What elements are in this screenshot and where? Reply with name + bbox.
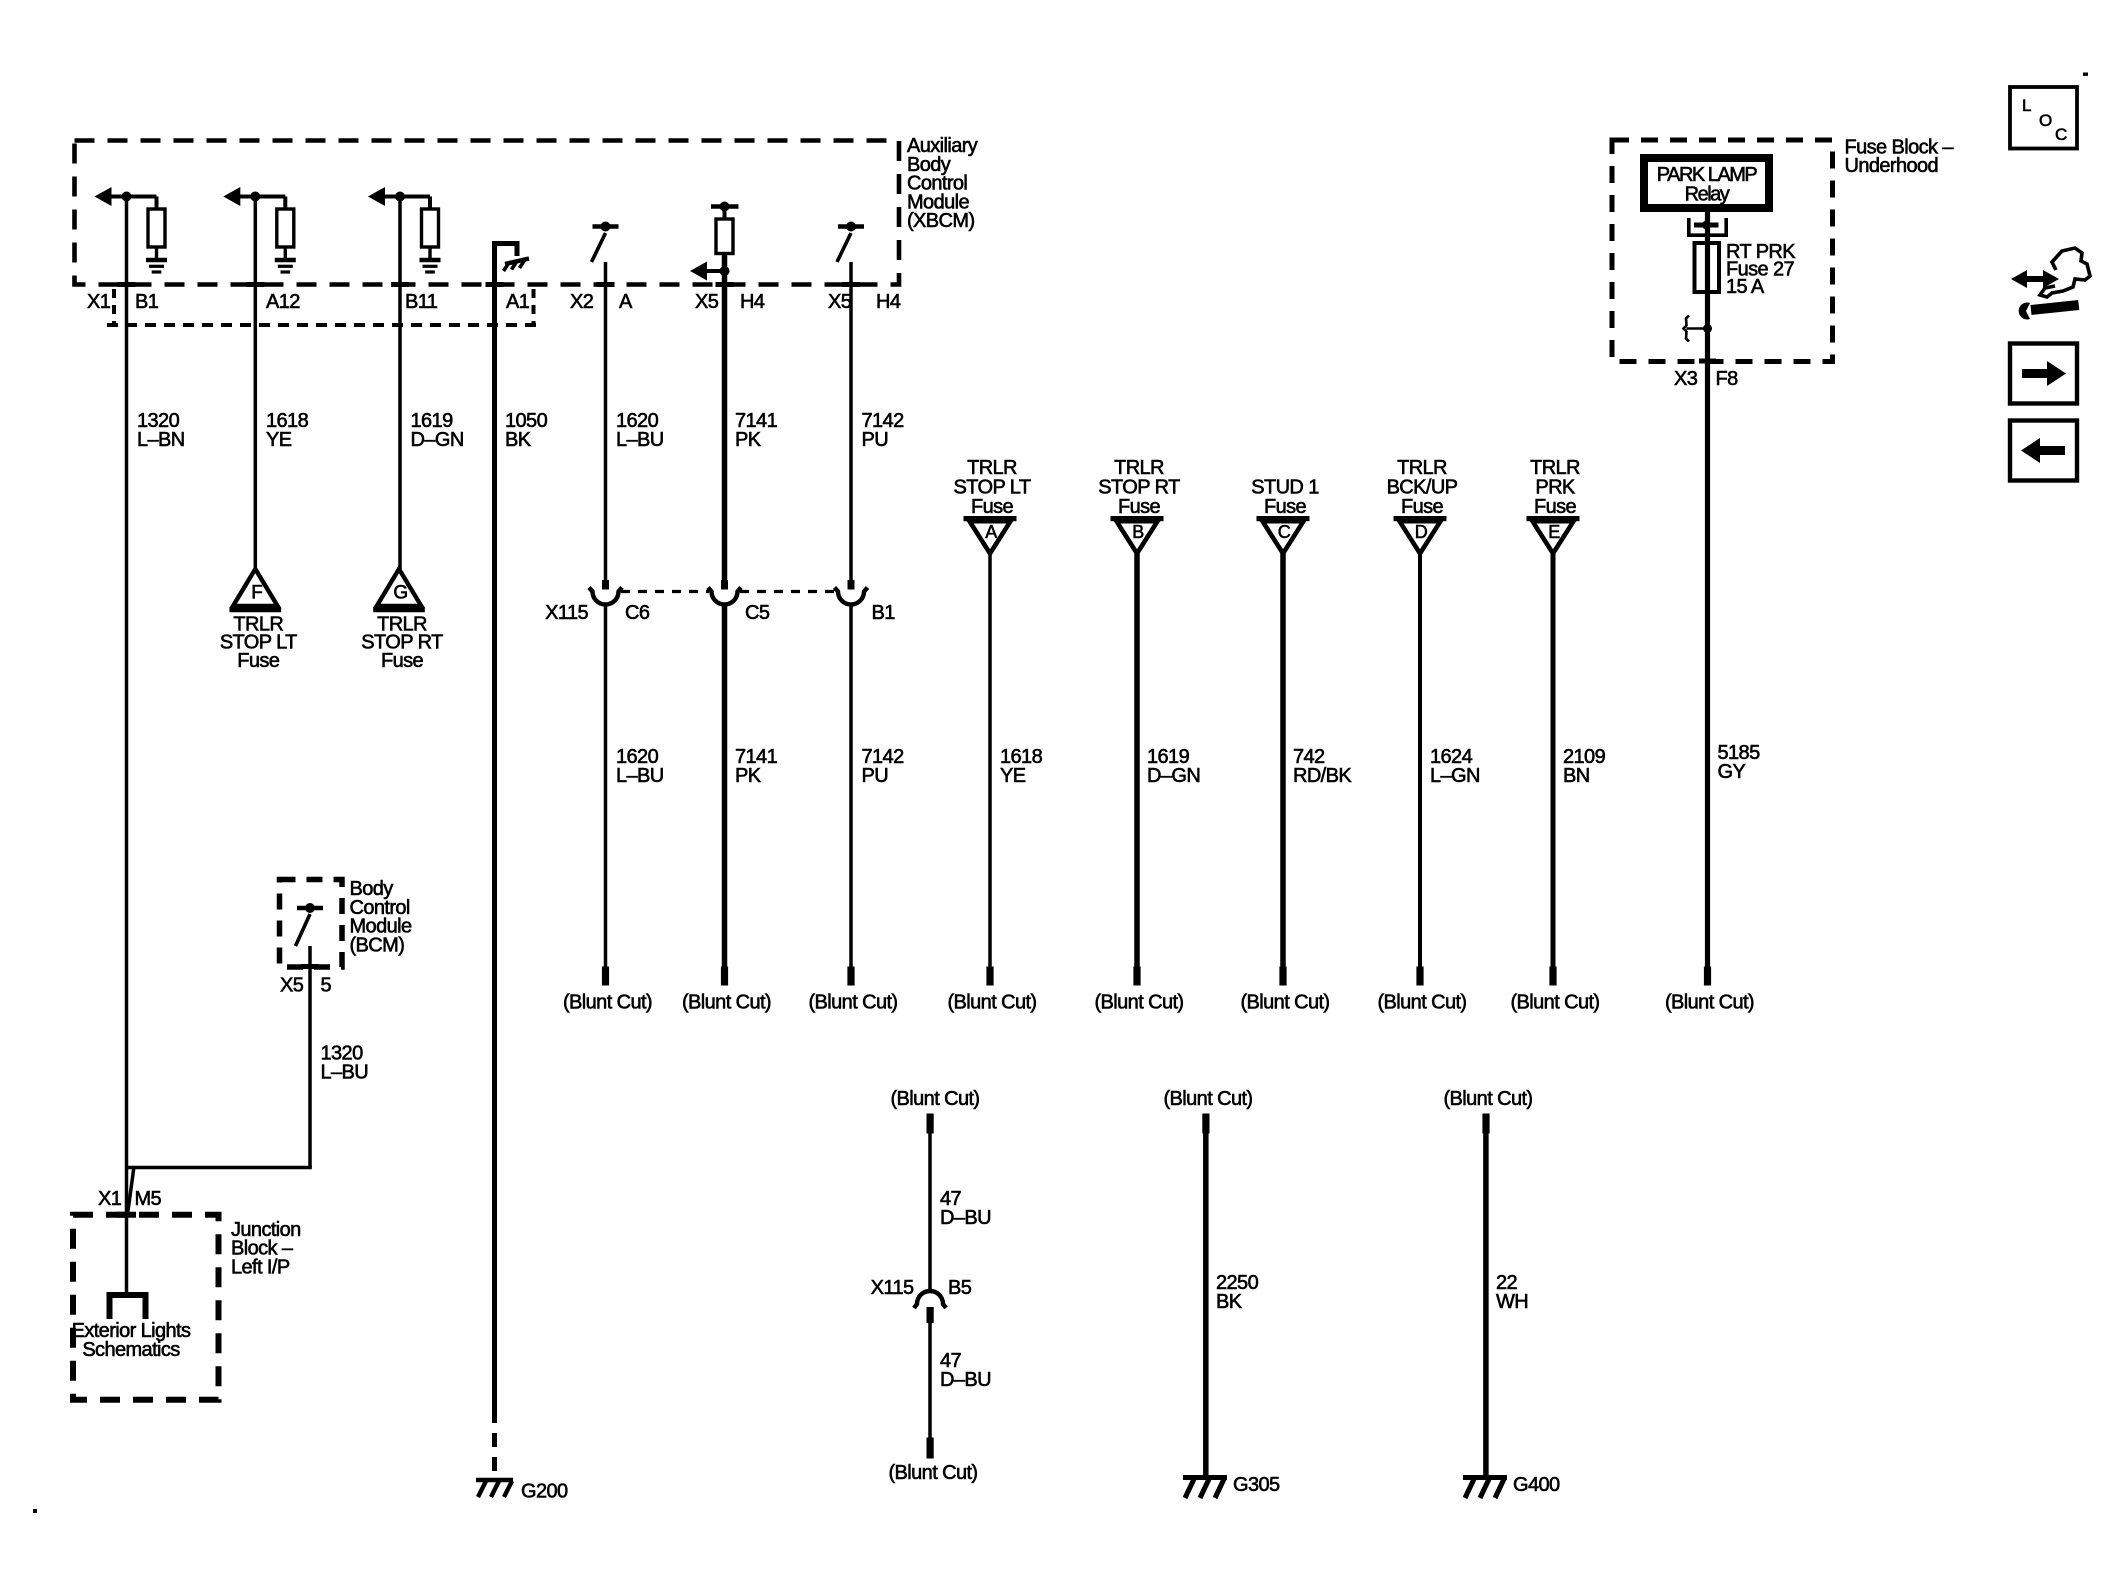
label 1619 D-GN [411,410,464,451]
label 7141 PK (lower) [735,746,778,787]
svg-text:Fuse: Fuse [971,496,1014,518]
svg-text:YE: YE [266,429,292,451]
svg-text:(Blunt Cut): (Blunt Cut) [1665,992,1754,1014]
svg-text:F8: F8 [1716,368,1739,390]
svg-text:B11: B11 [405,291,438,313]
svg-text:(Blunt Cut): (Blunt Cut) [1444,1088,1533,1110]
svg-text:G305: G305 [1233,1474,1280,1496]
label G305 [1233,1474,1280,1496]
wire 742 RD/BK from fuse C [1280,554,1286,967]
blunt cut stub at x=851 [809,967,898,1014]
svg-text:D–GN: D–GN [411,429,464,451]
svg-text:C: C [2055,125,2067,144]
svg-text:X115: X115 [871,1277,914,1299]
label 1320 L-BU [321,1043,369,1084]
junction dot B11 [395,192,405,202]
Junction Block - Left I/P dashed box [73,1215,219,1400]
fuse A (inverted triangle symbol) [964,516,1017,554]
connector labels X1 B1 A12 B11 A1 X2 A X5 H4 X5 H4 [87,291,901,313]
ground symbol (internal) B1 [146,260,167,272]
svg-text:(Blunt Cut): (Blunt Cut) [1378,992,1467,1014]
wire 1618 YE from fuse A [988,554,992,967]
svg-text:A: A [985,522,997,542]
svg-text:(Blunt Cut): (Blunt Cut) [891,1088,980,1110]
wire 1050 BK from XBCM A1 [492,244,497,1474]
svg-text:BN: BN [1563,765,1590,787]
Fuse Block - Underhood dashed box [1612,140,1833,362]
wire 1320 L-BU from BCM X5-5 [127,946,312,1216]
blunt cut (top) of wire 22 [1444,1088,1533,1134]
fuse E name label [1530,457,1580,518]
svg-text:YE: YE [1000,765,1026,787]
label 1619 D&#8211;GN [1147,746,1200,787]
label 1320 L-BN [137,410,185,451]
ground G305 symbol [1183,1478,1227,1499]
svg-text:O: O [2039,111,2052,130]
svg-text:G400: G400 [1513,1474,1560,1496]
wire 1618 YE from XBCM A12 [254,197,258,570]
svg-text:5: 5 [321,975,332,997]
switch contact X5 H4 (inside XBCM) [837,222,864,263]
label 7141 PK (upper) [735,410,778,451]
blunt cut stub at x=1137 [1095,967,1184,1014]
X115 pass-through connector row: dashed link [621,590,835,593]
label 22 WH [1496,1272,1528,1313]
X115 connector terminal C5 (stub + arc) [708,580,741,605]
wire crossing ticks at XBCM connector row [118,282,861,287]
connector labels X5 5 (BCM) [280,975,332,997]
Exterior Lights Schematics label [72,1320,191,1361]
arrow with junction X5 H4 [690,262,730,281]
junction dot A12 [250,192,260,202]
resistor (driver load) B11 [422,197,439,259]
X115 connector terminal C6 (stub + arc) [589,580,622,605]
Auxiliary Body Control Module (XBCM) dashed box [75,141,900,285]
Fuse Block - Underhood label [1845,137,1955,177]
svg-text:RD/BK: RD/BK [1293,765,1352,787]
svg-text:X2: X2 [570,291,594,313]
svg-text:X5: X5 [695,291,719,313]
svg-text:X5: X5 [280,975,304,997]
wire 7141 PK below X115 C5 [722,605,728,967]
staple symbol (Exterior Lights feed) [110,1295,146,1319]
speck top right [2083,73,2088,76]
ground G400 symbol [1463,1478,1507,1499]
junction dot B1 [122,192,132,202]
label G200 [521,1481,568,1503]
svg-text:X5: X5 [828,291,852,313]
svg-text:(Blunt Cut): (Blunt Cut) [948,992,1037,1014]
svg-text:X1: X1 [98,1188,122,1210]
relay output clip bracket [1689,218,1726,235]
blunt cut stub at x=1420 [1378,967,1467,1014]
connector labels X3 F8 [1674,368,1738,390]
svg-text:H4: H4 [740,291,765,313]
junction block crossing tick [117,1212,136,1218]
svg-text:L–BU: L–BU [616,765,664,787]
svg-text:(Blunt Cut): (Blunt Cut) [1511,992,1600,1014]
svg-text:GY: GY [1718,761,1746,783]
fuse E (inverted triangle symbol) [1527,516,1580,554]
junction block name label [231,1219,301,1279]
svg-text:C6: C6 [625,602,650,624]
label 7142 PU (upper) [862,410,905,451]
wire 5185 GY main vertical (relay to blunt cut) [1705,212,1710,967]
chassis ground symbol A1 [504,259,530,272]
svg-text:A: A [619,291,633,313]
svg-text:M5: M5 [135,1188,162,1210]
svg-text:Fuse: Fuse [1401,496,1444,518]
label 1620 L-BU (lower) [616,746,664,787]
label 1618 YE [266,410,309,451]
X1 connector dotted box [107,289,540,325]
svg-text:F: F [251,583,262,604]
blunt cut (top) of wire 2250 [1164,1088,1253,1134]
svg-text:(Blunt Cut): (Blunt Cut) [1095,992,1184,1014]
blunt cut stub at x=990 [948,967,1037,1014]
fuse A name label [954,457,1031,518]
blunt cut stub at x=1707.5 [1665,967,1754,1014]
label 1620 L-BU (upper) [616,410,664,451]
svg-text:B1: B1 [872,602,896,624]
label 7142 PU (lower) [862,746,905,787]
svg-text:G: G [393,583,407,604]
label 742 RD/BK [1293,746,1352,787]
svg-text:Relay: Relay [1685,184,1730,206]
switch contact X2 A (inside XBCM) [592,222,619,263]
label 47 D-BU (upper) [940,1188,991,1229]
fuse C (inverted triangle symbol) [1257,516,1310,554]
svg-text:D–BU: D–BU [940,1369,991,1391]
blunt cut (bottom) of wire 47 [889,1438,978,1485]
blunt cut stub at x=1553 [1511,967,1600,1014]
relay pin bar with junction [1694,221,1719,230]
svg-text:WH: WH [1496,1291,1528,1313]
PARK LAMP Relay label [1657,164,1758,206]
RT PRK Fuse 27 15A fuse symbol [1695,243,1720,292]
svg-text:D: D [1415,522,1428,542]
wire 7141 PK from XBCM X5 H4 [722,253,728,580]
X115 connector terminal B5 (arc + stub) [914,1291,946,1323]
XBCM module name label [907,135,978,232]
fuse B (inverted triangle symbol) [1111,516,1164,554]
svg-text:(Blunt Cut): (Blunt Cut) [809,992,898,1014]
label 1050 BK [505,410,548,451]
back arrow box [2010,421,2077,481]
svg-text:PK: PK [735,765,762,787]
svg-text:C: C [1278,522,1291,542]
svg-text:G200: G200 [521,1481,568,1503]
svg-text:C5: C5 [745,602,770,624]
switch contact inside BCM [296,903,324,946]
svg-text:(Blunt Cut): (Blunt Cut) [889,1462,978,1484]
label 2250 BK [1216,1272,1259,1313]
svg-text:PU: PU [862,429,889,451]
svg-text:BK: BK [1216,1291,1243,1313]
LOC navigation box [2010,87,2077,149]
fuse F label TRLR STOP LT Fuse [220,614,297,672]
X115 B5 labels [871,1277,972,1299]
X115 row labels [545,602,895,624]
svg-text:BK: BK [505,429,532,451]
wire 2250 BK [1203,1131,1209,1476]
wire 47 D-BU (lower segment) [928,1323,932,1438]
svg-text:(Blunt Cut): (Blunt Cut) [1164,1088,1253,1110]
svg-text:D–BU: D–BU [940,1207,991,1229]
ground symbol (internal) B11 [420,260,441,272]
svg-text:(Blunt Cut): (Blunt Cut) [682,992,771,1014]
connector labels X1 M5 (junction block) [98,1188,162,1210]
svg-text:A12: A12 [266,291,300,313]
svg-text:A1: A1 [506,291,530,313]
svg-text:(Blunt Cut): (Blunt Cut) [563,992,652,1014]
blunt cut (top) of wire 47 [891,1088,980,1134]
label 1618 YE [1000,746,1043,787]
svg-text:Fuse: Fuse [1264,496,1307,518]
PARK LAMP Relay box [1644,158,1769,208]
wire 1620 L-BU from XBCM X2 A [604,262,608,580]
svg-text:B5: B5 [948,1277,972,1299]
fuse B name label [1098,457,1180,518]
forward arrow box [2010,344,2077,404]
fuse D name label [1387,457,1458,518]
Body Control Module (BCM) dashed box [280,880,343,968]
svg-text:Fuse: Fuse [381,650,424,672]
svg-text:Schematics: Schematics [82,1339,180,1361]
wire 7142 PU from XBCM X5 H4 [849,262,853,580]
fuse G label TRLR STOP RT Fuse [361,614,443,672]
fuse F TRLR STOP LT (triangle symbol) [230,569,282,610]
wire 22 WH [1483,1131,1489,1476]
wire 2109 BN from fuse E [1551,554,1556,967]
XBCM output X5 H4: top bar and resistor [711,202,739,254]
XBCM output driver B1: arrow [95,187,157,206]
svg-text:L–GN: L–GN [1430,765,1480,787]
svg-text:B1: B1 [135,291,159,313]
RT PRK Fuse 27 label [1726,241,1796,298]
label 5185 GY [1718,742,1761,783]
svg-text:Fuse: Fuse [237,650,280,672]
resistor (driver load) A12 [277,197,294,259]
wire 47 D-BU (upper segment) [928,1134,932,1292]
resistor (driver load) B1 [148,197,165,259]
ground G200 symbol [476,1480,513,1497]
label 2109 BN [1563,746,1606,787]
svg-text:L–BN: L–BN [137,429,185,451]
svg-text:PK: PK [735,429,762,451]
svg-text:X115: X115 [545,602,588,624]
fuse D (inverted triangle symbol) [1394,516,1447,554]
svg-text:Left I/P: Left I/P [231,1256,290,1278]
svg-text:L–BU: L–BU [616,429,664,451]
harness repair icon (arrows + wrench scribble) [2011,248,2090,320]
fuse block crossing tick X3 F8 [1699,359,1716,364]
XBCM output driver B11: arrow [368,187,430,206]
fuse G TRLR STOP RT (triangle symbol) [373,569,425,610]
X115 connector terminal B1 (stub + arc) [835,580,868,605]
wire 1624 L&#8211;GN from fuse D [1418,554,1422,967]
svg-text:L: L [2022,96,2031,115]
speck bottom left [33,1509,37,1513]
wire 7142 PU below X115 B1 [849,605,853,967]
BCM name label [350,878,412,956]
fuse C name label [1251,477,1319,519]
svg-text:Underhood: Underhood [1845,155,1939,177]
svg-text:D–GN: D–GN [1147,765,1200,787]
svg-text:Fuse: Fuse [1534,496,1577,518]
XBCM output driver A12: arrow [223,187,285,206]
svg-text:E: E [1548,522,1560,542]
blunt cut stub at x=605.5 [563,967,652,1014]
wire 1619 D&#8211;GN from fuse B [1134,554,1140,967]
svg-text:(BCM): (BCM) [350,934,405,956]
blunt cut stub at x=1283 [1241,967,1330,1014]
XBCM A1 internal wire to chassis ground [495,244,518,259]
wire 1620 L-BU below X115 C6 [604,605,608,967]
svg-text:X3: X3 [1674,368,1698,390]
label G400 [1513,1474,1560,1496]
fuse output clip hook [1684,316,1713,342]
svg-text:(XBCM): (XBCM) [907,210,975,232]
ground symbol (internal) A12 [275,260,296,272]
label 1624 L&#8211;GN [1430,746,1480,787]
label 47 D-BU (lower) [940,1350,991,1391]
blunt cut stub at x=724.5 [682,967,771,1014]
svg-text:B: B [1132,522,1144,542]
svg-text:X1: X1 [87,291,111,313]
svg-text:Fuse: Fuse [1118,496,1161,518]
svg-text:PU: PU [862,765,889,787]
BCM crossing tick [301,964,319,969]
wire 1619 D-GN from XBCM B11 [398,197,402,570]
wire 1320 L-BN from XBCM B1 [125,197,129,1293]
svg-text:L–BU: L–BU [321,1061,369,1083]
svg-text:H4: H4 [876,291,901,313]
svg-text:15 A: 15 A [1726,276,1765,298]
svg-text:(Blunt Cut): (Blunt Cut) [1241,992,1330,1014]
